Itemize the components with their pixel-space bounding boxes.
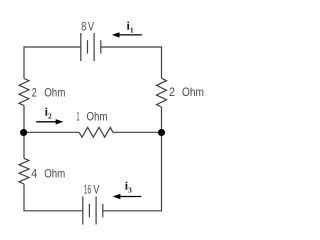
resistor 2 Ohm right (zigzag) xyxy=(157,78,167,107)
wire left middle (resistor to node A) xyxy=(23,106,25,133)
svg-text:Ohm: Ohm xyxy=(44,166,65,180)
battery V2 16V plate 4 (short) xyxy=(102,204,104,217)
svg-text:i3: i3 xyxy=(125,179,132,195)
battery V2 16V plate 3 (long) xyxy=(95,197,97,225)
wire top-left horizontal (corner to battery) xyxy=(24,47,81,79)
svg-text:Ohm: Ohm xyxy=(44,85,65,99)
wire left lower (node A to 4 Ohm) xyxy=(23,132,25,158)
svg-text:V: V xyxy=(88,20,94,34)
battery V1 8V plate 2 (short) xyxy=(87,40,89,53)
wire bottom-left (4 Ohm to bottom battery) xyxy=(24,184,83,211)
svg-text:Ohm: Ohm xyxy=(87,109,108,123)
svg-text:4: 4 xyxy=(31,166,37,180)
svg-text:16: 16 xyxy=(84,182,92,196)
svg-text:2: 2 xyxy=(32,85,37,99)
battery V1 8V plate 1 (long) xyxy=(80,33,82,61)
svg-text:1: 1 xyxy=(76,109,79,123)
wire right middle (resistor to node B) xyxy=(161,107,163,132)
wire top-right horizontal (battery to right corner) xyxy=(101,47,162,78)
svg-text:8: 8 xyxy=(81,20,86,34)
node B (right junction dot) xyxy=(158,129,165,136)
current arrow i1 (points left) xyxy=(112,32,142,37)
battery V1 8V plate 3 (long) xyxy=(93,33,95,61)
svg-text:Ohm: Ohm xyxy=(182,85,204,99)
svg-text:i1: i1 xyxy=(127,19,134,35)
wire bottom-right (battery to bottom-right corner) xyxy=(103,132,162,211)
resistor 2 Ohm left (zigzag) xyxy=(19,79,29,106)
current arrow i2 (points right) xyxy=(36,119,63,124)
current arrow i3 (points left) xyxy=(113,194,142,199)
wire middle-right (1 Ohm to node B) xyxy=(113,131,162,133)
svg-text:i2: i2 xyxy=(45,104,52,120)
battery V2 16V plate 1 (long) xyxy=(82,197,84,225)
svg-text:V: V xyxy=(93,182,99,196)
battery V1 8V plate 4 (short) xyxy=(100,40,102,53)
resistor 1 Ohm (zigzag) xyxy=(79,127,113,137)
battery V2 16V plate 2 (short) xyxy=(88,204,90,217)
wire middle-left (node A to 1 Ohm) xyxy=(24,131,79,133)
resistor 4 Ohm (zigzag) xyxy=(19,158,29,184)
svg-text:2: 2 xyxy=(169,85,175,99)
node A (left junction dot) xyxy=(20,129,27,136)
